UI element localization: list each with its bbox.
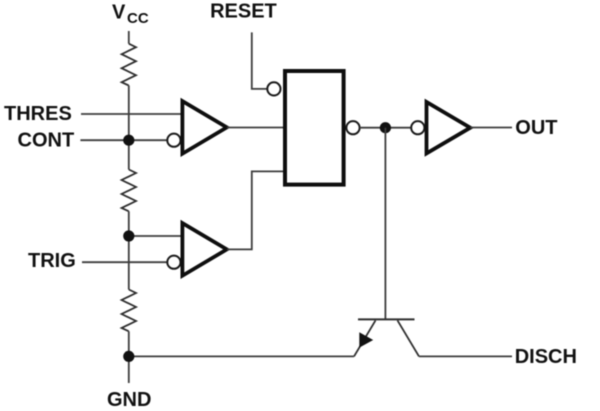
bubble flip-flop output [346,121,359,134]
svg-text:THRES: THRES [4,103,72,125]
svg-text:GND: GND [107,389,151,411]
svg-text:OUT: OUT [515,117,557,139]
svg-text:DISCH: DISCH [515,346,577,368]
wire output node to transistor base [384,128,386,320]
transistor Q1 base bar [358,318,415,320]
node GND junction [123,351,134,362]
wire comparator2 noninverting input [129,235,181,237]
bubble buffer input [411,121,424,134]
wire OUT [470,127,512,129]
transistor Q1 emitter leg [354,320,376,356]
svg-text:V: V [112,2,126,24]
svg-text:RESET: RESET [210,1,277,23]
wire CONT input [80,139,167,141]
op-amp comparator1 [182,101,226,154]
resistor R3 [122,290,136,332]
op-amp output buffer [427,102,471,153]
wire chain R2 to R3 [128,211,130,289]
wire GND stub [128,356,130,383]
wire comparator1 output [227,127,284,129]
transistor Q1 emitter arrow [359,332,373,347]
wire flip-flop output to buffer [360,127,412,129]
svg-text:CC: CC [127,10,149,27]
resistor R2 [122,170,136,212]
wire RESET input [252,32,267,89]
wire chain R1 to R2 [128,86,130,170]
resistor R1 [122,44,136,86]
bubble RESET flip-flop input [267,82,280,95]
node divider junction [123,230,134,241]
svg-text:CONT: CONT [18,129,75,151]
wire GND rail [129,355,354,357]
wire chain R3 to GND node [128,331,130,356]
wire VCC stub [128,31,130,44]
label VCC [112,2,149,27]
node CONT junction [123,135,134,146]
node output junction [380,122,391,133]
wire TRIG input [82,261,167,263]
wire DISCH [419,355,512,357]
wire THRES input [81,113,182,115]
op-amp comparator2 [182,223,226,276]
bubble comparator2 inverting input [167,256,180,269]
wire comparator2 output to flip-flop [227,171,284,249]
transistor Q1 collector leg [398,320,420,356]
svg-text:TRIG: TRIG [28,250,76,272]
bubble comparator1 inverting input [167,134,180,147]
flip-flop U1 [285,71,344,185]
